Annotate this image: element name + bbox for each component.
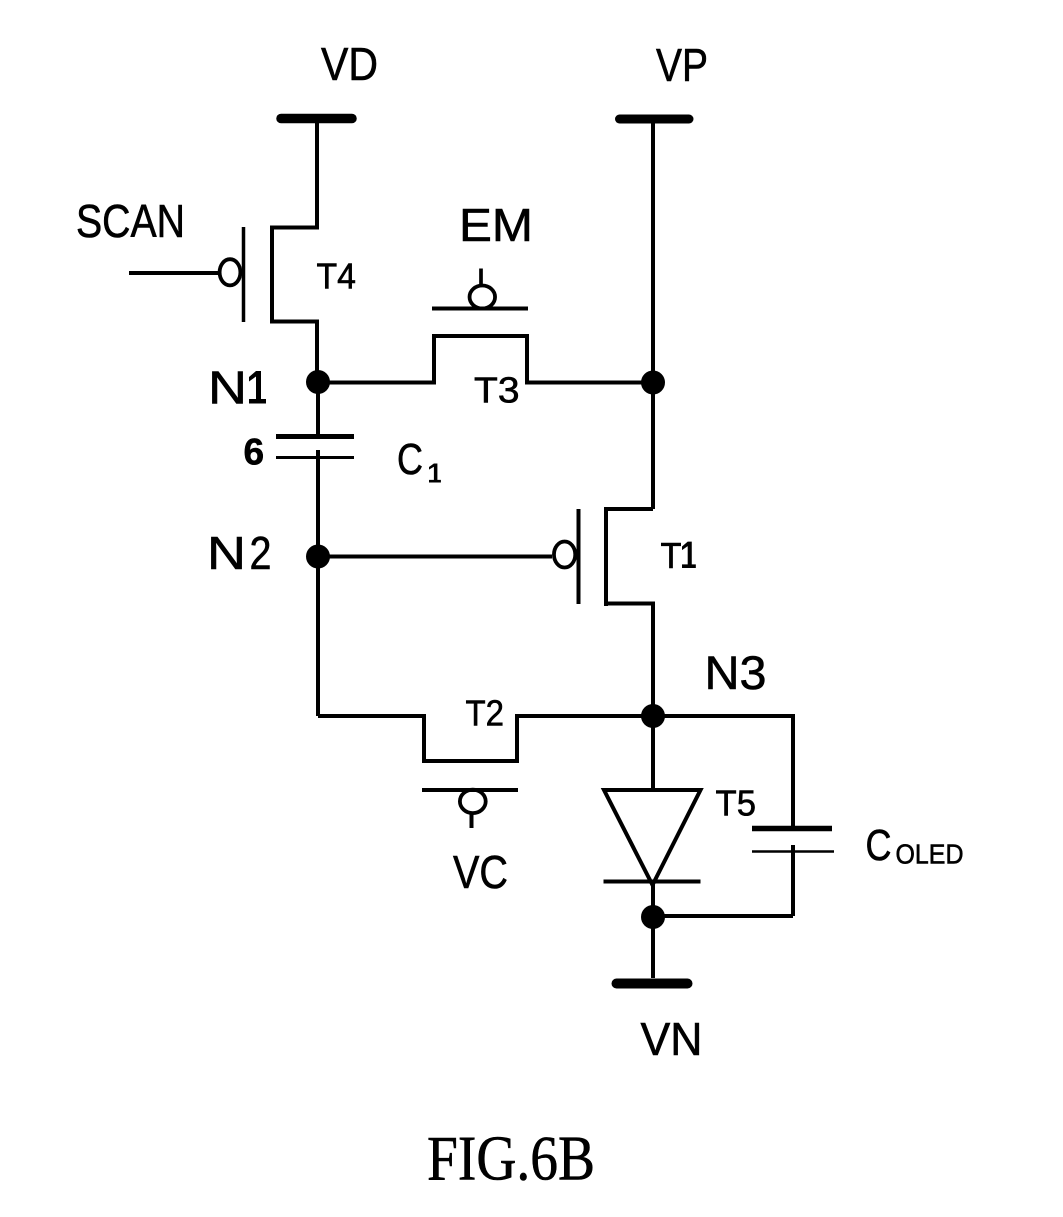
svg-text:VP: VP xyxy=(656,39,708,91)
svg-text:T5: T5 xyxy=(716,783,757,824)
svg-text:6: 6 xyxy=(244,432,265,473)
svg-text:OLED: OLED xyxy=(896,839,964,870)
svg-text:N3: N3 xyxy=(705,646,767,699)
svg-text:C: C xyxy=(397,435,423,484)
svg-text:SCAN: SCAN xyxy=(76,195,185,247)
svg-text:T2: T2 xyxy=(466,693,505,734)
svg-text:C: C xyxy=(866,821,892,870)
svg-text:FIG.6B: FIG.6B xyxy=(427,1123,595,1194)
svg-text:N: N xyxy=(207,527,246,579)
svg-text:VC: VC xyxy=(453,846,508,898)
svg-text:EM: EM xyxy=(459,199,533,251)
svg-text:T: T xyxy=(661,535,682,576)
svg-text:N: N xyxy=(208,362,247,414)
svg-text:VD: VD xyxy=(321,38,378,90)
svg-text:2: 2 xyxy=(250,527,272,579)
svg-text:T4: T4 xyxy=(317,256,357,297)
svg-text:VN: VN xyxy=(641,1013,703,1065)
svg-text:T3: T3 xyxy=(474,370,520,411)
